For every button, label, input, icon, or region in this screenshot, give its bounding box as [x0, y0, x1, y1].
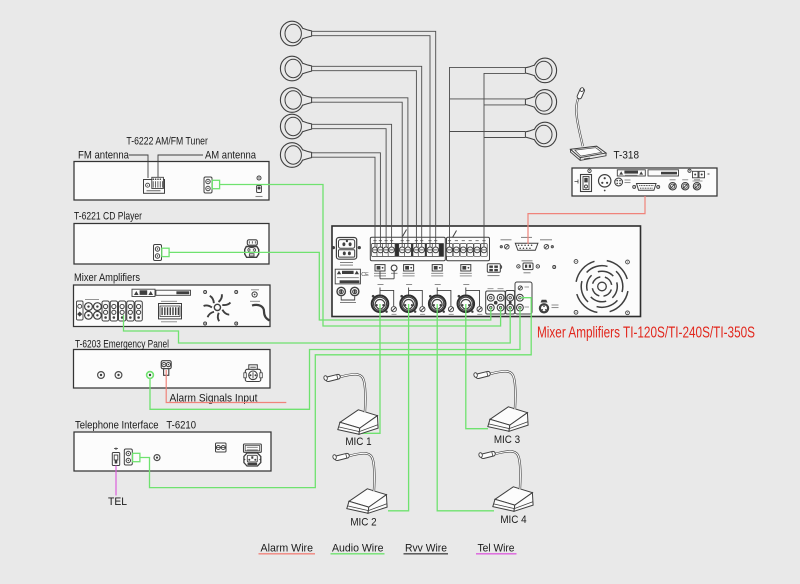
T-318 id label strip	[648, 170, 679, 176]
wire pair from horn speaker SP4 to amp terminals	[312, 124, 392, 247]
label T-6222 AM/FM Tuner	[126, 136, 208, 148]
desk paging microphone MIC 2	[332, 453, 387, 513]
horn speaker SP3	[280, 88, 311, 113]
label Mixer Amplifiers	[74, 272, 140, 284]
amp speaker-zone terminal strip left	[370, 237, 445, 261]
device box Mixer Amplifiers	[74, 285, 271, 327]
device box Telephone Interface T-6210	[74, 432, 271, 471]
device box T-6221 CD Player	[74, 224, 269, 265]
legend Tel Wire	[476, 543, 517, 555]
T-318 DB15 connector	[633, 184, 660, 191]
tuner RCA output jacks with green plug	[204, 177, 220, 193]
audio wire from telephone interface to amp TEL input	[140, 298, 531, 488]
amp small screws middle row	[499, 266, 556, 269]
svg-text:MIC 3: MIC 3	[494, 434, 520, 446]
label T-6221 CD Player	[74, 211, 142, 223]
amp cooling fan	[572, 256, 633, 317]
svg-text:MIC 4: MIC 4	[500, 514, 526, 526]
amp input gain switches	[374, 265, 472, 276]
antenna terminal block inside tuner	[144, 177, 165, 193]
svg-text:T-6221 CD Player: T-6221 CD Player	[74, 211, 142, 223]
label Telephone Interface T-6210	[75, 420, 196, 432]
legend Alarm Wire	[259, 543, 316, 555]
amp XLR line output	[539, 300, 559, 314]
device box T-6222 AM/FM Tuner	[74, 162, 269, 201]
T-318 power switch	[575, 169, 592, 191]
tuner rear small icons	[256, 176, 263, 197]
label MIC 4	[500, 514, 526, 526]
desk paging microphone MIC 4	[478, 451, 533, 511]
T-318 monitor connector	[688, 169, 710, 181]
mixer amp input connector modules with green plug	[102, 301, 142, 321]
audio wire from amp XLR 1 to MIC 1	[362, 304, 380, 433]
T-318 caution label	[617, 170, 645, 176]
mixer amp caution labels	[132, 289, 191, 296]
audio wire from tuner to amp AUX input 2	[220, 185, 501, 327]
wire bus from right horn speakers to amp terminals	[450, 67, 526, 247]
svg-text:Mixer Amplifiers TI-120S/TI-24: Mixer Amplifiers TI-120S/TI-240S/TI-350S	[537, 325, 755, 342]
svg-text:TEL: TEL	[108, 496, 127, 508]
telephone interface AC inlet	[244, 444, 262, 466]
label MIC 3	[494, 434, 520, 446]
CD player power connector	[245, 240, 259, 257]
mixer amp cooling fan	[204, 291, 238, 326]
horn speaker SP6	[525, 58, 556, 83]
amp jack lead line MIC 3	[435, 285, 451, 307]
emergency panel jacks	[98, 372, 122, 379]
mixer amp fuse and power cord	[250, 290, 270, 321]
label MIC 2	[350, 517, 376, 529]
alarm wire from emergency panel connector, underlining Alarm Signals Input	[166, 370, 286, 403]
amp speaker output binding posts	[337, 287, 359, 302]
amp DB9 remote connector with screws	[500, 237, 553, 250]
wire pair from horn speaker SP2 to amp terminals	[312, 66, 422, 247]
svg-text:T-6222 AM/FM Tuner: T-6222 AM/FM Tuner	[126, 136, 208, 148]
device box main mixer amplifier TI-120S/240S/350S rear panel	[332, 226, 641, 317]
wire pair from horn speaker SP5 to amp terminals	[312, 153, 381, 248]
amp mic1 bracket lines	[380, 271, 394, 279]
audio wire from mixer amplifier to amp input 3	[124, 307, 511, 343]
amp jack lead line MIC 1	[378, 285, 394, 307]
amp AC power inlet	[336, 238, 356, 266]
amp XLR combo input jack 3	[429, 295, 454, 314]
T-318 gooseneck microphone	[571, 87, 607, 160]
horn speaker SP7	[525, 90, 556, 115]
tel wire from telephone interface to TEL label	[115, 466, 117, 496]
horn speaker SP5	[280, 143, 311, 168]
legend Audio Wire	[331, 543, 385, 555]
amp reset hole	[391, 265, 398, 273]
telephone line connector	[112, 448, 119, 466]
svg-text:Alarm Wire: Alarm Wire	[261, 543, 314, 555]
wire-count slash mark right	[453, 231, 457, 238]
amp warning label	[335, 269, 369, 284]
horn speaker SP4	[280, 114, 311, 139]
T-318 volume knobs	[669, 180, 701, 190]
svg-text:Rvv Wire: Rvv Wire	[405, 543, 447, 555]
label FM antenna with leader line	[78, 150, 148, 179]
horn speaker SP1	[280, 21, 311, 46]
telephone interface fuse holder	[216, 443, 227, 452]
svg-text:MIC 2: MIC 2	[350, 517, 376, 529]
svg-text:MIC 1: MIC 1	[345, 436, 371, 448]
desk paging microphone MIC 3	[473, 371, 528, 431]
audio wire from amp XLR 3 to MIC 4	[437, 304, 494, 511]
emergency panel AC outlet	[244, 365, 262, 382]
audio wire from CD player to amp AUX input 1	[169, 252, 491, 320]
device box T-318 rear panel	[572, 168, 717, 196]
T-318 XLR connector	[599, 175, 611, 192]
telephone interface RCA jack with green plug	[124, 449, 140, 465]
label TEL	[108, 496, 127, 508]
svg-text:Tel Wire: Tel Wire	[478, 543, 515, 555]
horn speaker SP2	[280, 56, 311, 81]
device box T-6203 Emergency Panel	[74, 350, 271, 389]
horn speaker SP8	[525, 122, 556, 147]
audio wire from amp XLR 4 to MIC 3	[466, 304, 488, 429]
amp link connector	[517, 261, 540, 273]
svg-text:Audio Wire: Audio Wire	[332, 543, 384, 555]
mixer amp speaker terminal block	[159, 301, 182, 322]
amp XLR combo input jack 1	[372, 295, 397, 314]
audio wire from amp XLR 2 to MIC 2	[388, 304, 409, 511]
amp XLR combo input jack 4	[458, 295, 483, 314]
legend Rvv Wire	[404, 543, 449, 555]
amp panel screws beside inlet	[332, 246, 361, 249]
amp XLR combo input jack 2	[400, 295, 425, 314]
CD player RCA output jacks with green plug	[154, 245, 170, 261]
amp jack lead line MIC 4	[463, 285, 479, 307]
alarm/remote wire from T-318 panel to amp DB9	[528, 196, 645, 244]
svg-text:T-6203 Emergency Panel: T-6203 Emergency Panel	[75, 339, 169, 351]
label MIC 1	[345, 436, 371, 448]
desk paging microphone MIC 1	[323, 374, 378, 434]
svg-text:T-318: T-318	[614, 150, 640, 162]
label T-318	[614, 150, 640, 162]
T-318 DIN connector	[615, 178, 631, 186]
wire pair from horn speaker SP3 to amp terminals	[312, 98, 408, 248]
telephone interface jack	[154, 455, 160, 461]
svg-text:CE: CE	[361, 272, 369, 278]
svg-text:FM antenna: FM antenna	[78, 150, 130, 162]
amp line level connector	[487, 264, 500, 276]
label AM antenna with leader line	[158, 150, 257, 179]
svg-text:Mixer Amplifiers: Mixer Amplifiers	[74, 272, 140, 284]
audio wire from emergency panel to amp input 4	[150, 307, 520, 409]
label T-6203 Emergency Panel	[75, 339, 169, 351]
svg-text:Telephone Interface T-6210: Telephone Interface T-6210	[75, 420, 196, 432]
emergency panel audio output jack (green)	[147, 372, 154, 379]
amp speaker terminal strip right	[446, 237, 489, 261]
amp jack lead line MIC 2	[406, 285, 422, 307]
svg-text:AM antenna: AM antenna	[205, 150, 257, 162]
wire-count slash mark left	[403, 230, 407, 237]
label Mixer Amplifiers TI-120S/TI-240S/TI-350S	[537, 325, 755, 342]
wire pair from horn speaker SP1 to amp terminals	[312, 31, 436, 247]
mixer amp rear RCA jacks	[77, 300, 102, 321]
label Alarm Signals Input	[170, 393, 258, 405]
amp aux input RCA bay	[486, 282, 532, 314]
emergency panel alarm connector	[161, 361, 171, 376]
